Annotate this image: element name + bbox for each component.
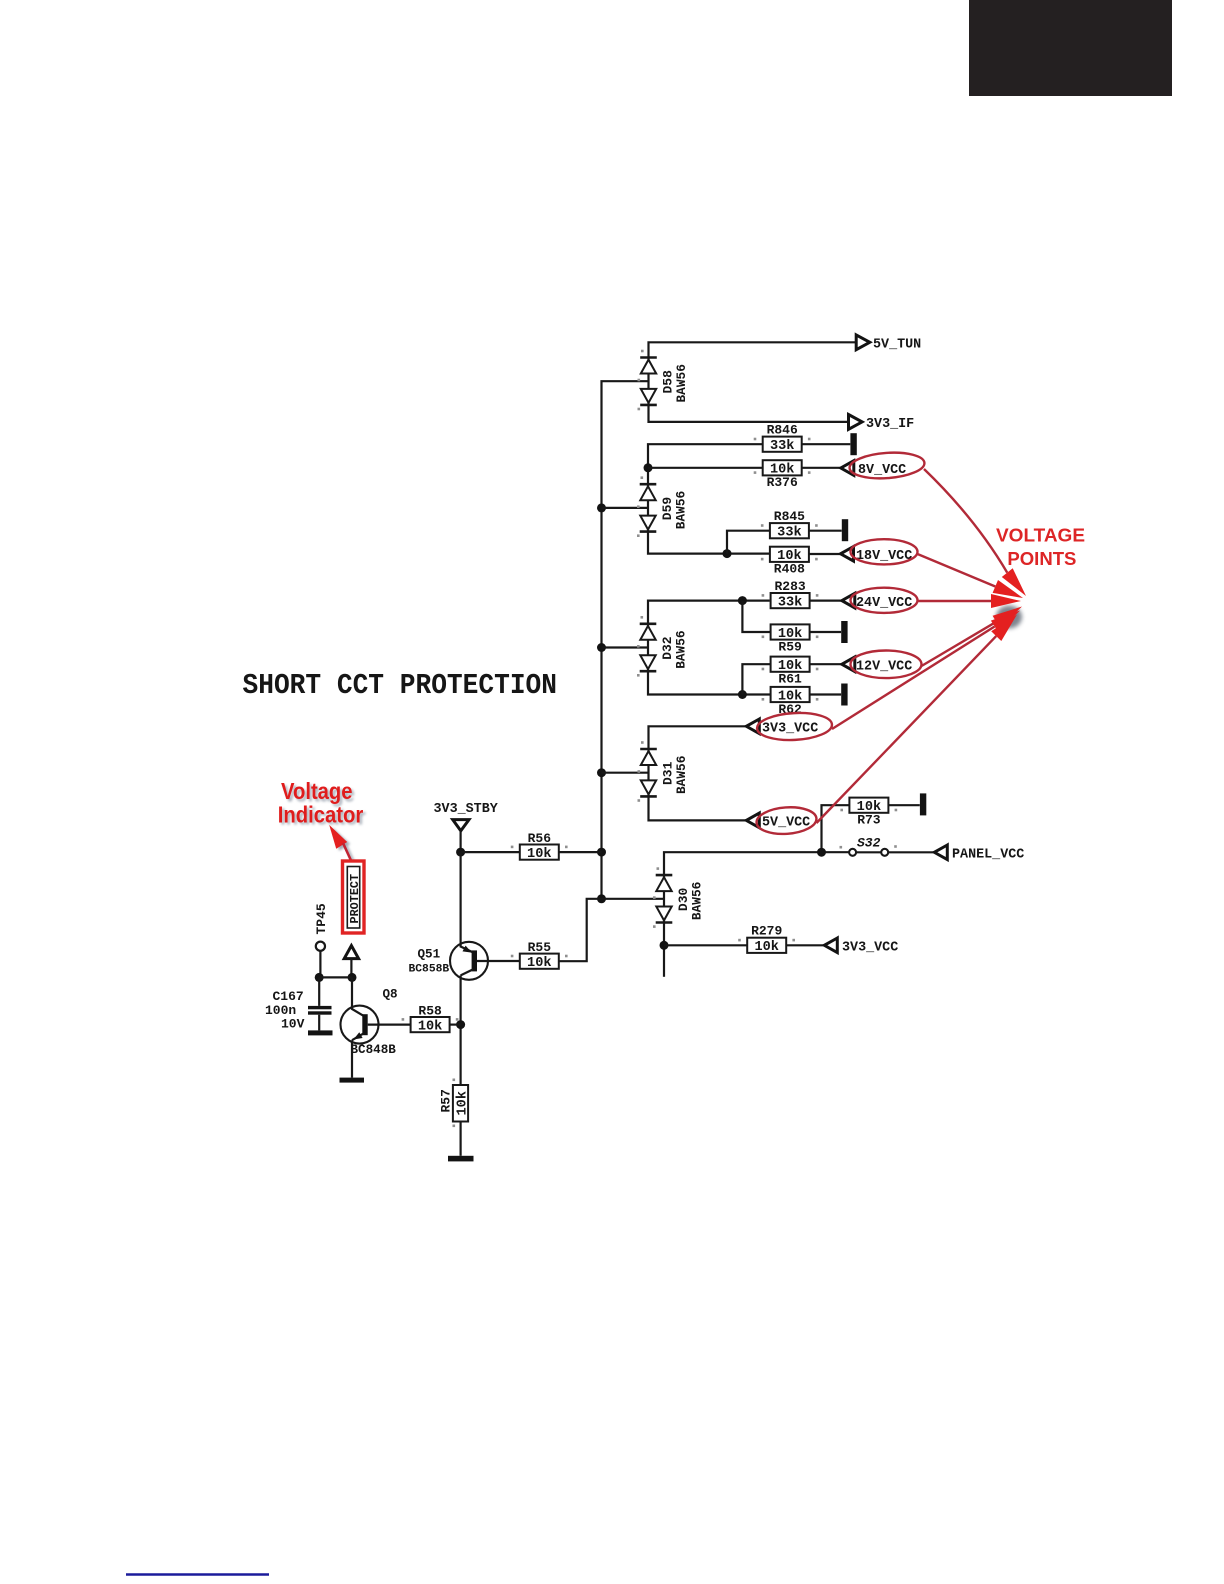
svg-text:10V: 10V [281, 1017, 305, 1032]
node R845 tap [723, 549, 732, 558]
svg-text:SHORT CCT PROTECTION: SHORT CCT PROTECTION [243, 670, 558, 703]
wire tap down to R59 [742, 601, 771, 632]
wire R376 to port [802, 467, 841, 469]
svg-text:BAW56: BAW56 [674, 491, 689, 529]
svg-text:R376: R376 [767, 475, 798, 490]
resistor R59 10k [771, 624, 810, 654]
svg-text:10k: 10k [455, 1091, 470, 1115]
wire R56 to bus [559, 851, 602, 853]
wire R73 riser [822, 805, 850, 852]
wire D31 top to 3V3_VCC [649, 726, 747, 749]
wire D58 bottom to 3V3_IF [649, 405, 849, 422]
svg-text:R283: R283 [774, 579, 805, 594]
red indicator arrow shadow [332, 827, 354, 864]
diode D30 BAW56 [656, 875, 705, 922]
shadow of arrow cluster [996, 606, 1022, 629]
red leader 18V [918, 554, 1024, 598]
red ellipse 18V_VCC [851, 539, 918, 564]
svg-text:10k: 10k [418, 1020, 442, 1035]
wire D32 bottom branch [648, 671, 771, 695]
label VOLTAGE POINTS [996, 526, 1085, 570]
resistor R376 10k [763, 460, 802, 490]
wire R59 to bar [810, 631, 842, 633]
node bus-D32 [597, 643, 606, 652]
svg-text:R279: R279 [751, 924, 782, 939]
resistor R56 10k [520, 831, 559, 862]
svg-text:BC848B: BC848B [351, 1043, 397, 1057]
terminator bar R73 [920, 793, 926, 815]
transistor Q51 BC858B [409, 942, 489, 980]
svg-text:R59: R59 [778, 639, 802, 654]
svg-text:C167: C167 [273, 989, 304, 1004]
diode D59 BAW56 [640, 484, 689, 531]
svg-text:12V_VCC: 12V_VCC [856, 659, 912, 674]
svg-text:VOLTAGE: VOLTAGE [996, 526, 1085, 546]
label Voltage Indicator [278, 778, 366, 829]
svg-text:PANEL_VCC: PANEL_VCC [952, 848, 1024, 863]
wire tap up to R845 [727, 531, 770, 554]
diode D31 BAW56 [640, 749, 689, 796]
switch S32 [849, 836, 888, 856]
wire Q8 collector [352, 977, 364, 1015]
svg-text:BC858B: BC858B [409, 964, 450, 976]
capacitor C167 100n 10V [265, 989, 332, 1032]
svg-text:R57: R57 [439, 1089, 454, 1112]
node R376 tap [644, 463, 653, 472]
svg-text:24V_VCC: 24V_VCC [856, 596, 912, 611]
svg-text:R845: R845 [774, 509, 805, 524]
node bus-D59 [597, 503, 606, 512]
svg-text:POINTS: POINTS [1007, 549, 1076, 569]
svg-text:BAW56: BAW56 [674, 630, 689, 668]
resistor R73 10k [849, 798, 888, 828]
pin marks [402, 350, 898, 1127]
wire R408 to port [809, 553, 841, 555]
node R61 tap [738, 690, 747, 699]
svg-text:5V_VCC: 5V_VCC [762, 816, 810, 831]
wire D59 bottom branch [648, 532, 770, 554]
ground Q8 [340, 1078, 365, 1083]
wire tap to R376 [648, 467, 763, 469]
terminator bar R62 [841, 684, 847, 706]
wire R55 up to bus bottom [559, 899, 602, 961]
svg-text:BAW56: BAW56 [674, 756, 689, 794]
svg-text:BAW56: BAW56 [674, 364, 689, 402]
svg-text:S32: S32 [857, 836, 881, 851]
svg-text:TP45: TP45 [314, 903, 329, 934]
PROTECT red box [343, 861, 365, 933]
wire R283 to port [810, 599, 842, 601]
resistor R62 10k [771, 687, 810, 717]
ground R57 [448, 1156, 474, 1162]
node R59 tap [738, 596, 747, 605]
wire R62 to bar [810, 693, 842, 695]
red ellipse 12V_VCC [851, 651, 922, 679]
wire R73 to bar [888, 804, 919, 806]
diode D32 BAW56 [640, 624, 689, 671]
wire Q51 emitter from STBY node [461, 852, 473, 952]
resistor R57 10k vertical [439, 1085, 471, 1122]
svg-text:R61: R61 [778, 672, 802, 687]
wire TP45 down [319, 951, 321, 978]
resistor R279 10k [747, 924, 786, 956]
wire R846 to bar [802, 443, 851, 445]
node R73-PANEL [817, 848, 826, 857]
transistor Q8 BC848B [341, 988, 398, 1058]
wire C167 bottom [318, 1015, 320, 1031]
svg-text:10k: 10k [527, 956, 551, 971]
svg-text:Q51: Q51 [418, 948, 441, 962]
port 5V_TUN [856, 335, 921, 353]
terminator bar R845 [842, 519, 848, 541]
node STBY-R56 [456, 848, 465, 857]
wire to R279 [664, 944, 747, 946]
resistor R283 33k [771, 579, 810, 611]
red ellipse 8V_VCC [849, 450, 926, 480]
svg-text:R56: R56 [528, 831, 552, 846]
wire Q51 collector down [460, 975, 462, 1085]
red leader 8V [924, 469, 1026, 596]
red ellipse 3V3_VCC [756, 711, 832, 742]
red leader 3V3 [832, 611, 1020, 730]
svg-text:R58: R58 [418, 1004, 442, 1019]
wire R57 to ground [460, 1122, 462, 1156]
red leader 12V [922, 607, 1023, 667]
terminator bar R846 [850, 433, 856, 455]
resistor R55 10k [520, 940, 559, 971]
wire R58 to node [450, 1023, 461, 1025]
wire R61 to port [810, 663, 842, 665]
svg-text:100n: 100n [265, 1003, 296, 1018]
test point TP45 [314, 903, 329, 951]
wire tap up to R61 [742, 664, 771, 694]
diode D58 BAW56 [640, 358, 689, 405]
terminator bar R59 [841, 621, 847, 643]
resistor R845 33k [770, 509, 809, 541]
svg-text:R55: R55 [528, 940, 552, 955]
node TP45 join [315, 973, 324, 982]
port 8V_VCC [841, 461, 906, 479]
svg-text:3V3_VCC: 3V3_VCC [762, 722, 818, 737]
black header block [969, 0, 1172, 96]
svg-text:R73: R73 [857, 813, 881, 828]
port 12V_VCC [842, 657, 912, 675]
port 3V3_VCC [746, 719, 818, 737]
red indicator arrow [329, 825, 351, 862]
resistor R61 10k [771, 657, 810, 687]
port 5V_VCC [746, 813, 810, 830]
red leader 5V [817, 615, 1018, 824]
wire D31 bottom to 5V_VCC [649, 796, 747, 820]
resistor R58 10k [411, 1004, 450, 1035]
wire Q8 emitter down [351, 1040, 353, 1077]
svg-text:PROTECT: PROTECT [348, 874, 362, 924]
resistor R408 10k [770, 547, 809, 577]
red ellipse 5V_VCC [756, 805, 818, 836]
red ellipse 24V_VCC [851, 588, 918, 613]
port 3V3_VCC lower [824, 938, 898, 956]
svg-text:R408: R408 [774, 562, 805, 577]
node bus-D31 [597, 768, 606, 777]
power 3V3_STBY [434, 802, 499, 831]
wire D58 top to 5V_TUN [649, 342, 856, 357]
node bus bottom [597, 894, 606, 903]
svg-text:10k: 10k [527, 847, 551, 862]
ground C167 [308, 1030, 333, 1035]
wire to R56 [461, 851, 520, 853]
node bus-R56 row [597, 848, 606, 857]
wire common bus vertical [602, 381, 649, 899]
svg-text:Indicator: Indicator [278, 801, 364, 827]
wire TP45 to Q8 collector [319, 976, 352, 978]
wire protect arrow down [350, 959, 352, 978]
resistor R846 33k [763, 423, 802, 455]
svg-text:R846: R846 [767, 423, 798, 438]
port 18V_VCC [841, 547, 913, 565]
wire D30 bottom to R279 [663, 923, 665, 977]
wire Q51 base to R55 [477, 960, 520, 962]
wire Q8 base to R58 [368, 1023, 411, 1025]
wire bus to D30 mid [602, 898, 665, 900]
svg-text:3V3_STBY: 3V3_STBY [434, 802, 499, 817]
wire PANEL row [664, 852, 935, 875]
wire R279 to port [786, 944, 824, 946]
wire D32 top branch [648, 601, 770, 624]
svg-text:3V3_VCC: 3V3_VCC [842, 941, 898, 956]
svg-text:10k: 10k [754, 940, 778, 955]
svg-text:3V3_IF: 3V3_IF [866, 417, 914, 432]
wire C167 top [318, 977, 320, 1006]
node R58 junction [456, 1020, 465, 1029]
power arrow PROTECT net [344, 946, 358, 959]
svg-text:33k: 33k [778, 596, 802, 611]
svg-text:33k: 33k [770, 439, 794, 454]
node protect join [348, 973, 357, 982]
port 24V_VCC [842, 593, 912, 611]
node R279 tap [660, 941, 669, 950]
port 3V3_IF [849, 415, 915, 433]
wire bus to D59 mid [602, 507, 649, 509]
red leader 24V [918, 594, 1022, 608]
svg-text:Voltage: Voltage [281, 778, 353, 804]
wire bus to D32 mid [602, 646, 649, 648]
footer blue rule [126, 1573, 269, 1576]
port PANEL_VCC [934, 845, 1024, 863]
svg-text:33k: 33k [777, 526, 801, 541]
svg-text:BAW56: BAW56 [690, 882, 705, 920]
wire bus to D31 mid [602, 772, 649, 774]
wire R845 to bar [809, 530, 842, 532]
wire D59 top branch [648, 444, 763, 484]
svg-text:Q8: Q8 [383, 988, 398, 1002]
svg-text:5V_TUN: 5V_TUN [873, 338, 921, 353]
wire 3V3_STBY down [460, 831, 462, 852]
